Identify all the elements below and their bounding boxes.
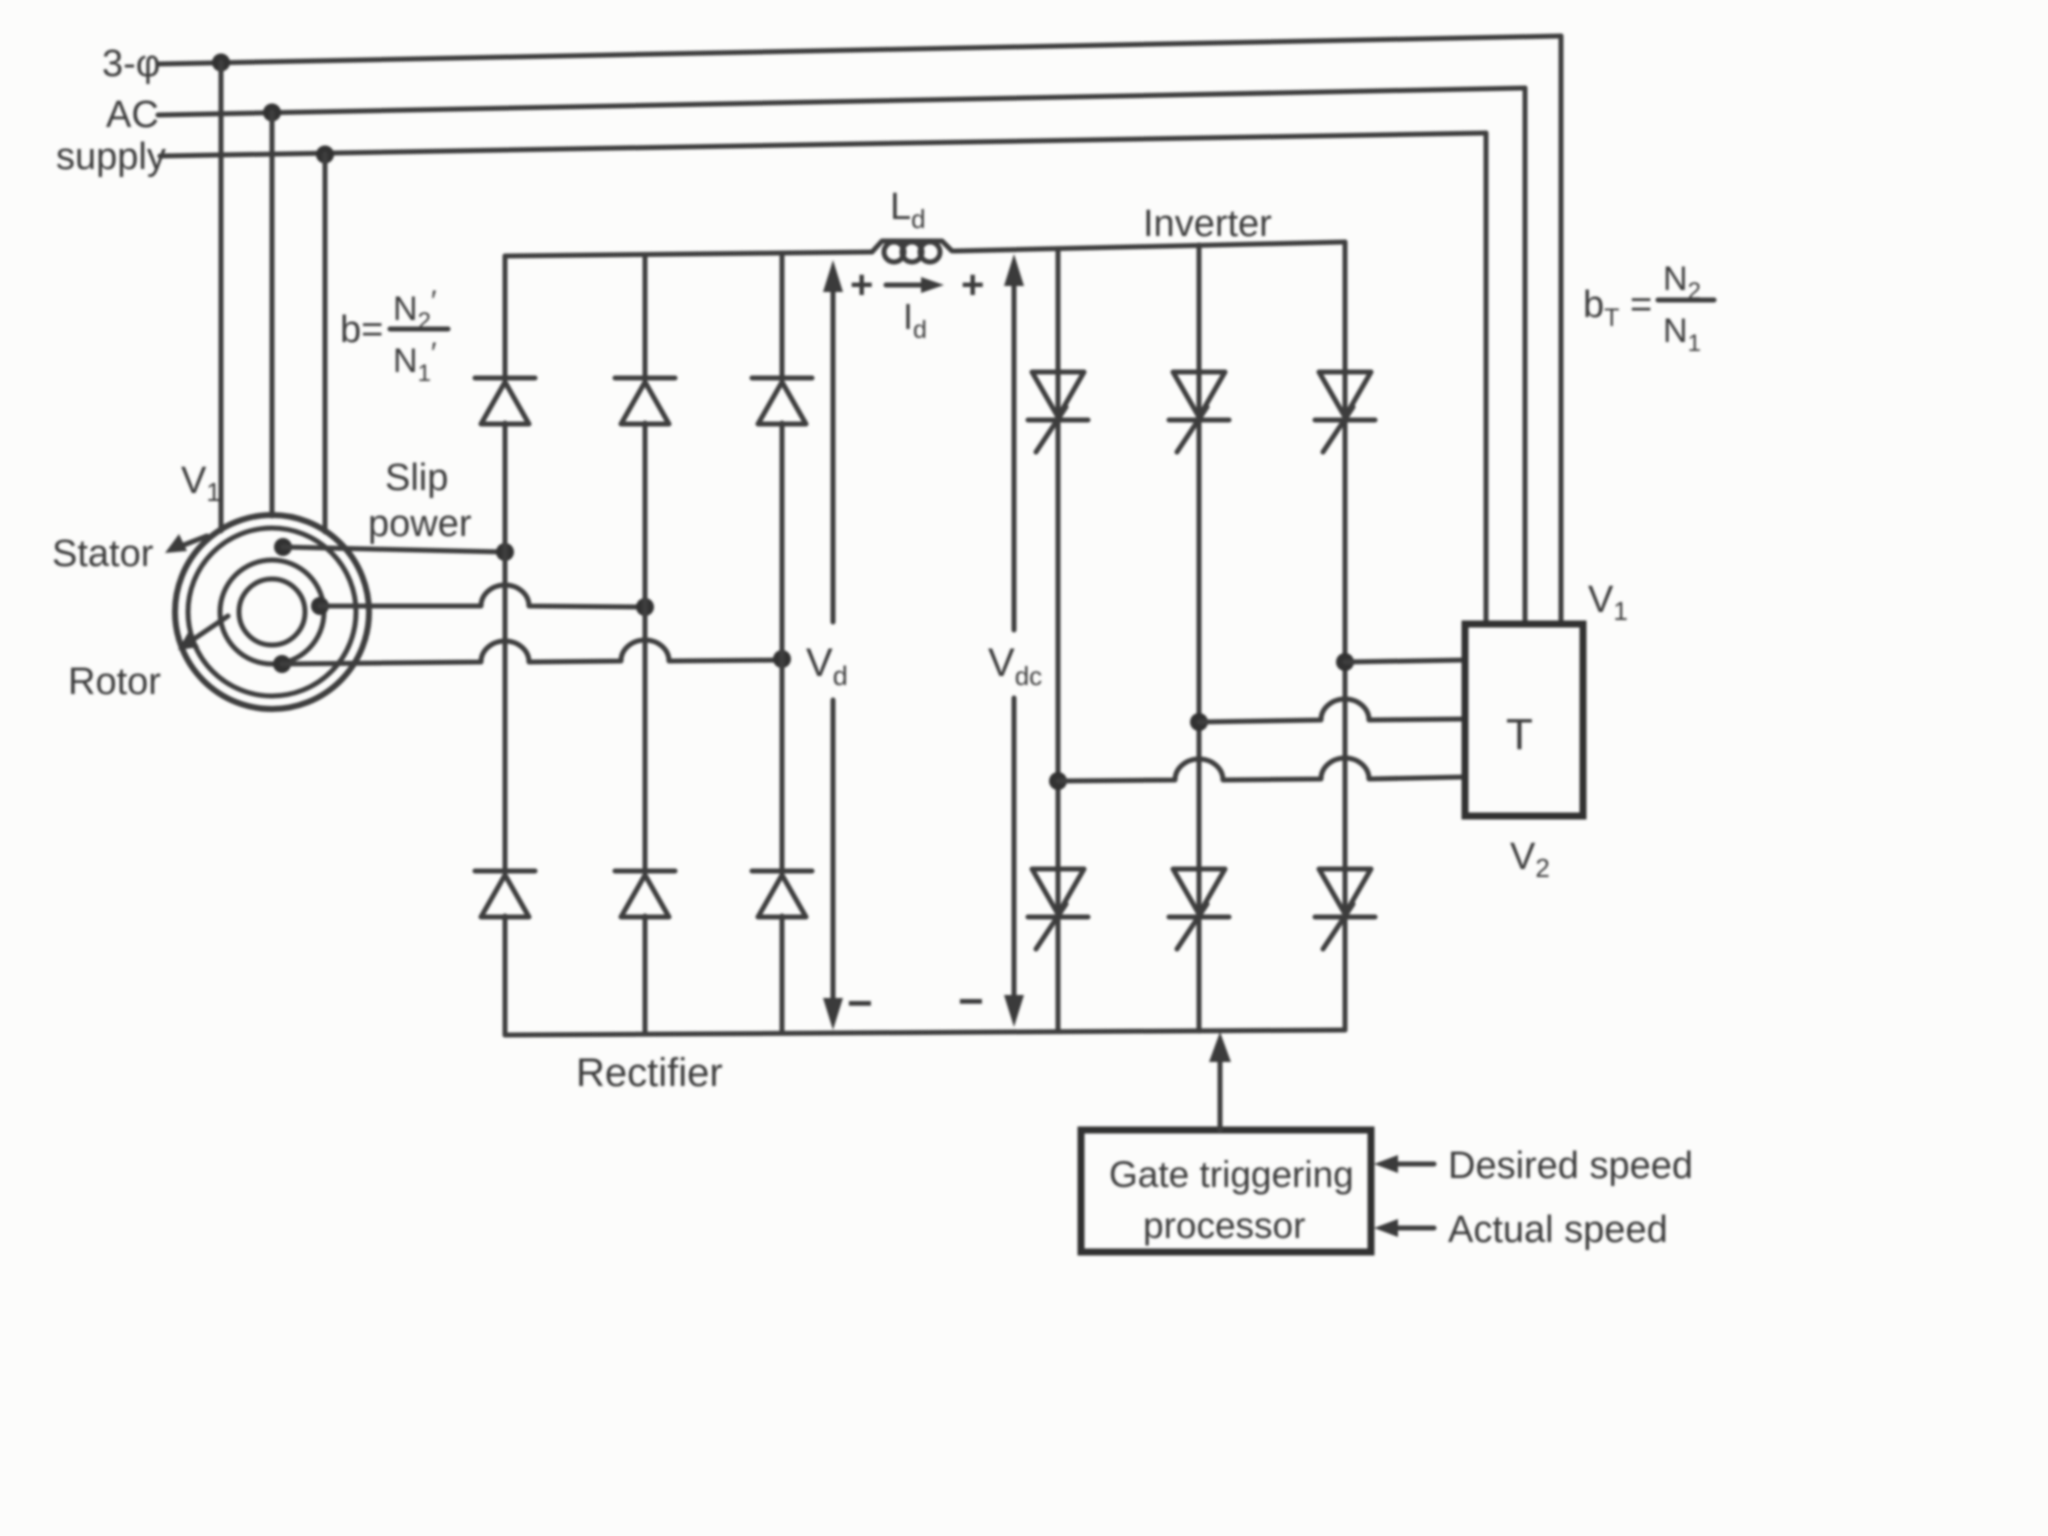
svg-text:power: power — [368, 503, 472, 545]
svg-text:bT =: bT = — [1583, 284, 1652, 332]
arrow Vd measurement — [831, 288, 836, 622]
arrow desired speed input — [1392, 1162, 1434, 1167]
node rotor tap 2 — [311, 597, 329, 615]
arrow gate box to inverter bus — [1218, 1056, 1223, 1130]
node rotor tap 3 — [273, 655, 291, 673]
wire supply line 3 right drop — [1484, 133, 1489, 624]
motor rotor inner circle — [239, 579, 305, 645]
wire drop phase3 to stator — [323, 154, 328, 532]
node junction line2 — [263, 104, 281, 122]
wire supply line 2 — [158, 88, 1525, 115]
svg-text:Actual speed: Actual speed — [1448, 1209, 1668, 1251]
thyristor T3 inverter leg3 top — [1315, 372, 1375, 452]
svg-text:Stator: Stator — [52, 533, 154, 575]
svg-text:V1: V1 — [181, 460, 221, 507]
svg-text:Id: Id — [903, 296, 927, 344]
wire drop phase1 to stator — [219, 62, 224, 531]
wire inverter leg1 — [1056, 249, 1061, 1031]
thyristor T6 inverter leg3 bottom — [1315, 869, 1375, 949]
node inverter leg3 output — [1336, 653, 1354, 671]
wire supply line 2 right drop — [1523, 88, 1528, 624]
node rectifier leg1 ac input — [496, 543, 514, 561]
node inverter leg1 output — [1049, 772, 1067, 790]
thyristor T4 inverter leg1 bottom — [1028, 869, 1088, 949]
node rectifier leg2 ac input — [636, 598, 654, 616]
svg-text:Desired speed: Desired speed — [1448, 1145, 1693, 1187]
wire inverter leg2 — [1197, 245, 1202, 1031]
diode D4 rectifier leg1 bottom — [475, 871, 535, 917]
svg-text:−: − — [847, 979, 873, 1028]
svg-text:b=: b= — [340, 309, 383, 351]
diode D1 rectifier leg1 top — [475, 378, 535, 424]
inductor Ld hump with loops — [872, 241, 952, 252]
wire inverter leg3 — [1343, 242, 1348, 1030]
svg-text:V2: V2 — [1510, 836, 1550, 883]
svg-text:T: T — [1506, 710, 1533, 759]
svg-text:3-φ: 3-φ — [102, 43, 160, 85]
node rotor tap 1 — [274, 538, 292, 556]
arrow actual speed input — [1392, 1226, 1434, 1231]
diode D2 rectifier leg2 top — [615, 378, 675, 424]
stator callout arrow — [176, 536, 207, 548]
wire inverter leg1 to transformer with jumps over leg2 leg3 — [1058, 758, 1465, 781]
wire drop phase2 to stator — [270, 112, 275, 516]
svg-text:Ld: Ld — [890, 186, 926, 234]
svg-text:Vdc: Vdc — [988, 641, 1042, 691]
wire rectifier leg2 — [643, 255, 648, 379]
wire rotor phase 2 with jump over leg1 — [320, 585, 645, 607]
wire supply line 1 — [158, 36, 1561, 64]
wire rotor phase 1 to rectifier leg1 — [283, 547, 505, 552]
wire rectifier leg3 — [780, 254, 785, 379]
svg-text:Slip: Slip — [385, 457, 448, 499]
motor rotor outer circle — [220, 560, 324, 664]
svg-text:processor: processor — [1143, 1205, 1305, 1246]
node inverter leg2 output — [1190, 713, 1208, 731]
svg-text:supply: supply — [56, 136, 166, 178]
svg-text:V1: V1 — [1588, 579, 1628, 626]
wire rotor phase 3 with jumps over leg1 leg2 — [282, 640, 782, 664]
diode D5 rectifier leg2 bottom — [615, 871, 675, 917]
diode D6 rectifier leg3 bottom — [752, 871, 812, 917]
motor stator outer circle — [175, 515, 369, 709]
arrow Vdc measurement — [1012, 282, 1017, 630]
rotor callout arrow — [188, 616, 228, 643]
svg-text:Inverter: Inverter — [1143, 203, 1272, 245]
thyristor T1 inverter leg1 top — [1028, 372, 1088, 452]
wire rectifier top bus — [505, 252, 872, 256]
wire supply line 3 — [160, 133, 1486, 156]
svg-text:Vd: Vd — [806, 641, 848, 691]
node rectifier leg3 ac input — [773, 650, 791, 668]
svg-text:Rotor: Rotor — [68, 661, 161, 703]
diode D3 rectifier leg3 top — [752, 378, 812, 424]
wire inverter leg3 to transformer — [1345, 660, 1465, 662]
svg-text:N1: N1 — [1663, 312, 1701, 357]
svg-text:Rectifier: Rectifier — [576, 1051, 723, 1095]
wire inverter leg2 to transformer with jump over leg3 — [1199, 699, 1465, 722]
motor stator inner circle — [188, 528, 356, 696]
svg-text:Gate triggering: Gate triggering — [1109, 1154, 1354, 1195]
wire rectifier leg1 — [503, 256, 508, 379]
node junction line3 — [316, 146, 334, 164]
svg-text:+: + — [850, 263, 873, 307]
thyristor T2 inverter leg2 top — [1169, 372, 1229, 452]
wire top bus inductor to inverter — [954, 242, 1345, 251]
transformer T box — [1465, 624, 1583, 816]
svg-text:+: + — [961, 263, 984, 307]
thyristor T5 inverter leg2 bottom — [1169, 869, 1229, 949]
arrow Id current — [886, 283, 928, 288]
svg-text:AC: AC — [106, 94, 159, 136]
svg-text:N1′: N1′ — [393, 337, 437, 387]
wire supply line 1 right drop — [1559, 36, 1564, 624]
gate triggering processor box — [1081, 1130, 1371, 1252]
svg-text:−: − — [958, 977, 984, 1026]
wire dc bottom bus — [505, 1030, 1345, 1035]
node junction line1 — [212, 54, 230, 72]
